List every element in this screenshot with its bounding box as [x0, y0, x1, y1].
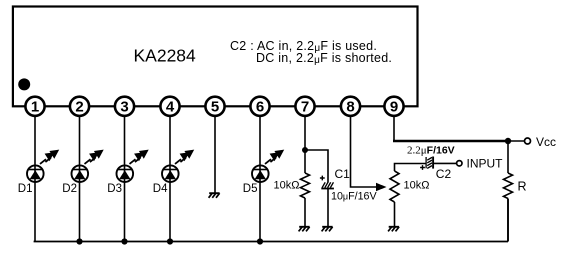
Vcc rail wire	[393, 140, 508, 143]
capacitor C2	[420, 157, 433, 170]
svg-text:C2: C2	[436, 167, 452, 181]
wire pin 7 down to node A	[304, 106, 306, 173]
svg-text:2.2μF/16V: 2.2μF/16V	[407, 145, 455, 157]
svg-text:6: 6	[256, 99, 264, 116]
LED D3	[117, 150, 149, 182]
junction on bottom rail	[76, 238, 82, 244]
INPUT terminal	[457, 161, 462, 166]
IC body U1 KA2284	[13, 7, 418, 107]
svg-text:10kΩ: 10kΩ	[274, 180, 300, 192]
svg-text:Vcc: Vcc	[536, 135, 556, 149]
svg-text:D5: D5	[243, 183, 258, 195]
pin 7	[295, 97, 314, 116]
pin 3	[115, 97, 134, 116]
resistor 10k (pin 7)	[301, 173, 310, 198]
wire pin 8 down and right to potentiometer wiper arrow	[351, 106, 378, 187]
svg-text:INPUT: INPUT	[467, 157, 504, 171]
LED D4	[162, 150, 194, 182]
wire pin 2 to LED D2 and bottom rail	[79, 106, 81, 241]
pin 4	[160, 97, 179, 116]
svg-text:D4: D4	[153, 183, 168, 195]
ground (pin 5)	[209, 192, 219, 194]
junction on bottom rail	[257, 238, 263, 244]
wire R to bottom rail	[507, 199, 509, 242]
pin 9	[384, 97, 403, 116]
wire node A to C1	[305, 150, 328, 183]
wire C1 to ground	[327, 189, 329, 227]
junction on bottom rail	[167, 238, 173, 244]
pin 1	[25, 97, 44, 116]
Vcc terminal	[525, 138, 531, 144]
bottom rail wire	[34, 241, 508, 243]
svg-text:DC in, 2.2μF is shorted.: DC in, 2.2μF is shorted.	[256, 51, 392, 66]
svg-text:R: R	[518, 180, 527, 194]
wiper arrow head	[376, 183, 387, 191]
wire pot to ground	[394, 202, 396, 227]
svg-text:D1: D1	[18, 183, 33, 195]
svg-text:10μF/16V: 10μF/16V	[331, 191, 377, 203]
svg-text:7: 7	[301, 99, 309, 116]
resistor R	[504, 173, 513, 199]
node A junction (pin 7)	[302, 147, 308, 153]
svg-text:8: 8	[346, 99, 354, 116]
LED D2	[72, 150, 104, 182]
wire pin 5 to ground	[214, 106, 216, 193]
capacitor C1	[320, 176, 334, 189]
svg-text:D3: D3	[107, 183, 122, 195]
svg-text:2: 2	[75, 99, 83, 116]
junction on bottom rail	[121, 238, 127, 244]
wire pin 3 to LED D3 and bottom rail	[124, 106, 126, 241]
svg-text:C1: C1	[335, 167, 351, 181]
junction Vcc node	[505, 138, 511, 144]
svg-text:KA2284: KA2284	[134, 46, 197, 66]
wire pin 1 to LED D1 and bottom rail	[34, 106, 36, 241]
ground (pot)	[389, 226, 399, 228]
LED D1	[27, 150, 59, 182]
svg-text:4: 4	[166, 99, 175, 116]
svg-text:3: 3	[120, 99, 128, 116]
svg-text:1: 1	[31, 99, 39, 116]
wire pin 4 to LED D4 and bottom rail	[169, 106, 171, 241]
ground (10k resistor)	[299, 226, 309, 228]
ground (C1)	[322, 226, 332, 228]
svg-text:9: 9	[390, 99, 398, 116]
pin 2	[70, 97, 89, 116]
pin 5	[205, 97, 224, 116]
wire pin 9 down to Vcc rail	[393, 106, 395, 140]
potentiometer 10k (pin 8)	[390, 171, 399, 202]
pin 8	[341, 97, 360, 116]
svg-text:D2: D2	[62, 183, 77, 195]
wire to Vcc terminal	[508, 140, 524, 142]
wire pot top to C2	[395, 164, 426, 172]
svg-text:5: 5	[211, 99, 219, 116]
svg-text:10kΩ: 10kΩ	[404, 180, 430, 192]
wire resistor to ground	[304, 198, 306, 227]
pin-1 indicator dot	[18, 78, 30, 90]
wire Vcc node to resistor R	[507, 141, 509, 173]
wire pin 6 to LED D5 and bottom rail	[259, 106, 261, 241]
wire C2 to INPUT terminal	[434, 162, 457, 164]
LED D5	[252, 150, 284, 182]
pin 6	[250, 97, 269, 116]
